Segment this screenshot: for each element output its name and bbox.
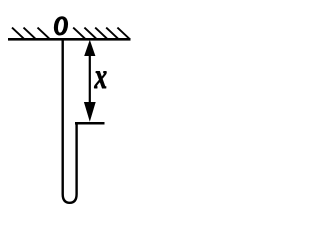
- folded tube (U-shape): [63, 40, 77, 203]
- bottom arrowhead: [84, 102, 96, 122]
- ceiling hatching: [12, 28, 129, 39]
- dimension arrow shaft: [89, 52, 91, 104]
- top arrowhead: [84, 40, 95, 56]
- ceiling line: [8, 38, 131, 41]
- free-end tick mark: [75, 122, 105, 125]
- svg-text:O: O: [54, 11, 69, 40]
- svg-text:x: x: [94, 56, 107, 97]
